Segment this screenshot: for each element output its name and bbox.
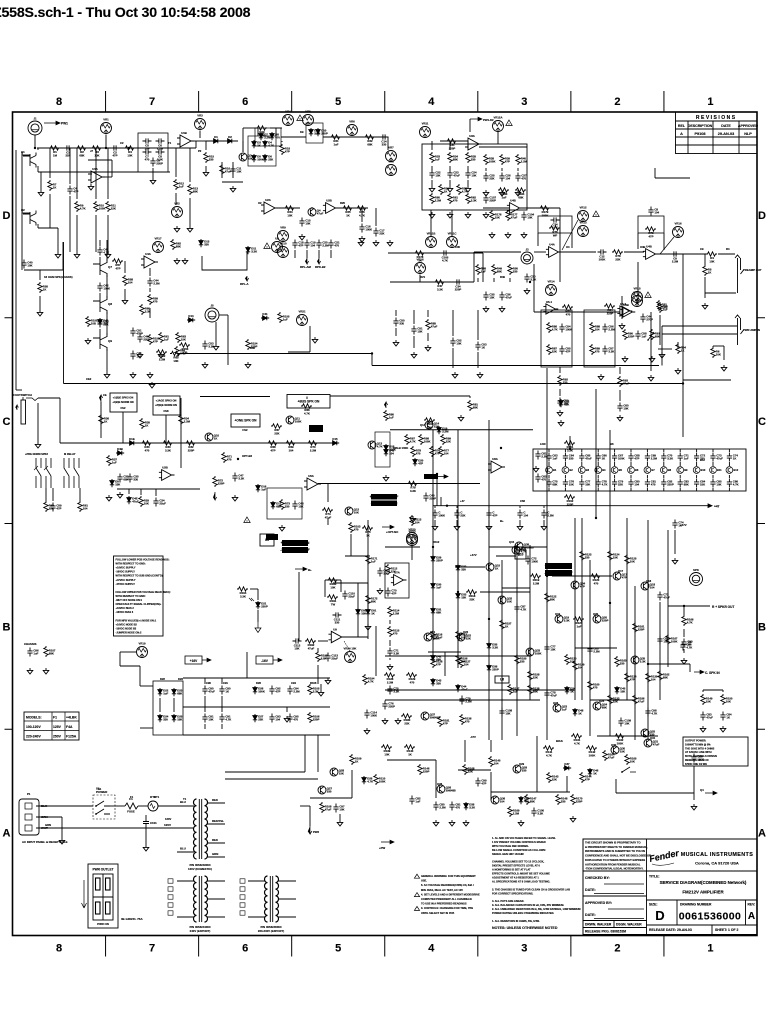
switch box B [584,310,615,367]
capacitor capacitor C26 [499,292,512,301]
capacitor capacitor C133 [117,474,129,483]
revisions table rule [738,121,740,154]
resistor resistor R131 [528,670,540,681]
wire fuse out [138,805,148,807]
svg-text:DRAWING NUMBER: DRAWING NUMBER [680,903,712,907]
transistor Q9 JFET [93,333,112,351]
svg-text:BLU: BLU [180,847,186,851]
svg-text:CE: CE [103,393,107,397]
wire color label [180,847,186,851]
svg-text:Q29: Q29 [519,762,525,766]
svg-text:100K: 100K [433,637,440,641]
op-amp op-amp U3 [261,198,278,214]
resistor resistor R26 [484,154,496,165]
resistor resistor R82 [374,774,386,785]
wire v358 [357,583,359,637]
revision entry [695,132,706,136]
net label text [555,612,561,616]
svg-text:47P: 47P [285,150,290,154]
svg-text:68K: 68K [684,483,689,487]
svg-text:U4B: U4B [510,199,516,203]
rail label [556,739,563,743]
wire rail V15 [634,586,636,740]
wire drop B [566,776,568,792]
svg-text:22K: 22K [466,637,471,641]
wire [456,520,458,524]
net label text [310,681,317,685]
resistor resistor R177 [179,414,191,425]
diode diode D26 [253,714,264,722]
connector stub [168,895,173,899]
ground [202,362,208,368]
ground [483,212,489,218]
ground [454,524,460,530]
svg-text:47P: 47P [649,234,654,238]
net label net label N5 [424,474,438,479]
svg-text:15K: 15K [620,690,625,694]
net label text [460,499,465,503]
border side tick [757,317,765,319]
svg-text:1uF: 1uF [371,560,376,564]
svg-text:VR7: VR7 [388,146,394,150]
svg-text:+16VDC SUPPLY: +16VDC SUPPLY [116,567,136,570]
net label label box LB7 [153,396,180,415]
voltage table entry [53,735,62,739]
net label text [553,701,559,705]
wire [683,649,685,653]
svg-text:-A SEL NORM ON: -A SEL NORM ON [371,501,398,505]
ground [35,442,41,448]
capacitor capacitor C78 [202,686,215,695]
ground [27,668,33,674]
svg-text:10K: 10K [624,722,629,726]
capacitor capacitor C80 [219,686,231,695]
junction [529,281,531,283]
svg-text:3. THE CHASSIS IS TUNED FOR CL: 3. THE CHASSIS IS TUNED FOR CLEAN CH & C… [492,887,570,891]
row label [3,828,11,840]
rail label [500,519,504,523]
svg-text:VR1: VR1 [103,118,109,122]
wire [728,449,730,452]
wire [107,215,109,252]
wire GRN drop [61,817,63,838]
ground [452,372,458,378]
wire link4 [590,699,635,701]
wire [339,814,341,820]
ladder stage Q20 [628,467,639,474]
border tick [570,91,572,112]
wire [449,166,451,170]
wire label [41,826,48,830]
svg-text:68K: 68K [602,706,607,710]
svg-text:68K: 68K [453,158,458,162]
svg-text:FOOTSWITCH: FOOTSWITCH [13,393,32,397]
net label label box LB1 [231,414,260,427]
wire [57,238,59,252]
resistor resistor R81 [350,754,362,765]
resistor resistor R175 [99,414,110,425]
ground [230,186,236,192]
capacitor capacitor C52 [563,479,575,488]
wire [175,193,177,205]
resistor resistor R14 [256,126,267,138]
svg-text:220P: 220P [628,335,635,339]
svg-text:10K: 10K [330,585,335,589]
resistor resistor R122 [721,694,733,705]
potentiometer potentiometer VR16 [493,116,504,132]
potentiometer potentiometer VR21 [407,530,418,546]
svg-text:15K: 15K [435,174,440,178]
svg-text:C: C [758,416,766,428]
svg-text:VR4: VR4 [285,110,291,114]
resistor resistor R50 [280,499,291,510]
svg-text:15K: 15K [569,483,574,487]
ground [143,845,149,851]
svg-text:47P: 47P [622,576,627,580]
svg-text:U1A: U1A [92,167,98,171]
capacitor capacitor C102 [700,712,713,721]
wire [597,462,599,466]
svg-text:RELEASE PKG. 0306152M: RELEASE PKG. 0306152M [585,930,626,934]
transistor Q8 JFET [93,296,112,314]
ladder stage Q19 [611,467,622,474]
border tick [384,936,386,957]
svg-text:220P: 220P [576,800,583,804]
wire rail V12 [529,545,531,700]
wire [149,268,151,276]
svg-text:15K: 15K [613,556,618,560]
capacitor capacitor C49 [546,453,558,462]
wire [702,690,704,692]
resistor resistor R146 [506,210,518,221]
junction [682,382,684,384]
svg-text:+MUTE NORM OFF: +MUTE NORM OFF [370,495,399,499]
svg-text:68K: 68K [564,403,569,407]
connector stub [240,903,245,907]
svg-text:470: 470 [153,300,158,304]
svg-text:4.7K: 4.7K [521,550,527,554]
resistor resistor R106 [625,672,637,683]
svg-text:-X REL NORM OFF: -X REL NORM OFF [544,571,572,575]
wire [106,312,108,335]
transistor transistor Q26 [526,648,541,656]
warning triangle [593,211,599,217]
wire [45,488,47,501]
junction [595,517,597,519]
ladder stage Q17 [578,467,589,474]
resistor resistor R33 [38,282,49,293]
title block rule [647,899,758,901]
svg-text:B6: B6 [610,442,614,446]
capacitor capacitor C108 [202,341,214,350]
border tick [291,91,293,112]
wire lower tie line [117,488,200,490]
svg-text:MODELS:: MODELS: [26,716,42,720]
wire [389,640,391,646]
svg-text:1uF: 1uF [436,586,441,590]
resistor resistor R156 [515,654,527,665]
resistor resistor R94 [580,550,592,561]
drive network frame [255,128,281,146]
border tick [105,936,107,957]
svg-text:PW1-D2: PW1-D2 [483,118,494,122]
svg-text:10K: 10K [339,808,344,812]
svg-text:1K: 1K [145,424,149,428]
net label label box LB4 [515,550,526,559]
wire [232,162,234,178]
resistor resistor R44 [271,424,282,436]
diode diode D37 [464,802,475,810]
capacitor capacitor C28 [97,247,109,256]
svg-text:WITH VOLTAGE REF NORMAL: WITH VOLTAGE REF NORMAL [492,844,529,848]
capacitor capacitor C38 [450,338,462,347]
wire drive line C [352,136,388,138]
svg-text:WITH RESPECT TO SUB GND (CONT': WITH RESPECT TO SUB GND (CONT'D): [116,575,164,578]
ground [521,232,527,238]
svg-text:D: D [758,210,766,222]
title block rule [583,870,647,872]
svg-text:3.3K: 3.3K [537,812,543,816]
wire [712,449,714,452]
wire fb rail A [385,689,575,691]
svg-text:1uF: 1uF [684,457,689,461]
svg-text:10K: 10K [726,700,731,704]
ladder stage Q21 [644,467,655,474]
wire drive line A [281,136,306,138]
svg-text:10K: 10K [384,752,389,756]
wire [309,326,311,352]
svg-text:1uF: 1uF [389,416,394,420]
wire stack out [168,147,196,149]
ground [691,804,697,810]
svg-text:-16V: -16V [261,659,269,663]
wire sec wire B [225,778,318,780]
svg-text:U5A: U5A [308,474,314,478]
capacitor capacitor C56 [596,479,608,488]
column label [335,96,341,108]
diode diode D52 [116,447,124,455]
output power note text [685,740,717,766]
svg-text:POWER RATING UNLESS OTHERWISE: POWER RATING UNLESS OTHERWISE INDICATED. [492,911,554,915]
svg-text:Q15: Q15 [509,540,515,544]
svg-text:J3: J3 [525,248,529,252]
fb box B [638,216,664,233]
svg-text:B1: B1 [553,468,557,472]
potentiometer potentiometer VR4 [283,110,294,126]
capacitor capacitor C22 [499,173,511,182]
resistor resistor R59 [426,319,438,330]
wire [722,690,724,692]
capacitor capacitor C135 [153,498,166,507]
ground [486,524,492,530]
svg-text:VR12A: VR12A [493,116,502,120]
wire row2 out long [318,483,480,485]
svg-text:3E GRIZZL 75A: 3E GRIZZL 75A [121,917,143,921]
svg-text:47uF: 47uF [453,174,460,178]
svg-text:104: 104 [310,244,315,248]
transistor transistor Q28 [631,656,646,664]
wire drop to 47line [436,474,438,506]
svg-text:REL: REL [678,124,686,128]
resistor resistor R17 [284,206,295,218]
rc pair [0,0,1,1]
svg-text:10K: 10K [173,359,178,363]
wire [309,806,311,826]
pa input frame [385,563,409,598]
svg-text:22K: 22K [552,778,557,782]
wire [215,322,217,344]
svg-text:2.2M: 2.2M [651,457,658,461]
svg-text:R + SPKR OUT: R + SPKR OUT [712,605,734,609]
wire [119,652,121,666]
resistor resistor R179 [162,441,173,453]
svg-text:!: ! [300,117,301,121]
resistor resistor R114 [586,746,597,758]
resistor resistor R51 [322,508,333,520]
wire [52,488,54,501]
resistor resistor R149 [401,714,412,726]
column label [149,96,155,108]
ground [499,190,505,196]
title block rule [647,924,758,926]
svg-text:2.2M: 2.2M [310,448,317,452]
junction [446,505,448,507]
wire [351,770,353,798]
svg-text:SPK: SPK [693,568,699,572]
wire [175,148,177,177]
resistor resistor R118 [418,764,430,775]
svg-text:VR13: VR13 [580,221,587,225]
svg-text:10K: 10K [27,264,32,268]
svg-text:4.7K: 4.7K [80,207,86,211]
net label text [27,792,31,796]
capacitor capacitor C61 [645,453,658,462]
wire sec wire A [225,771,305,773]
size cell [649,900,677,925]
svg-text:3.3K: 3.3K [240,594,246,598]
svg-text:4. ALL POTS ARE LINEAR.: 4. ALL POTS ARE LINEAR. [492,899,524,903]
wire [39,296,41,310]
svg-text:+16V: +16V [190,659,198,663]
net label text [250,346,255,350]
svg-text:330: 330 [163,718,168,722]
wire [340,580,342,592]
resistor resistor R67 [618,376,630,387]
wire [630,488,632,491]
op-amp op-amp U10 [507,199,523,214]
svg-text:47P: 47P [630,678,635,682]
svg-text:B4: B4 [602,468,606,472]
svg-text:U4A: U4A [145,252,151,256]
wire ce drop [100,402,102,438]
resistor resistor R98 [431,657,443,668]
svg-text:100K: 100K [379,780,386,784]
wire J3 sleeve drop [533,264,535,312]
resistor resistor R42 [170,351,181,363]
resistor resistor R165 [657,300,668,311]
wire [674,545,676,554]
svg-text:P9108: P9108 [695,132,706,136]
bridge frame [153,681,183,735]
svg-text:WF: WF [553,233,558,237]
ground [702,303,708,309]
clip diode box [306,123,323,143]
ground [122,298,128,304]
net arrow 47 [702,504,720,509]
ground [515,190,521,196]
svg-text:15K: 15K [417,330,422,334]
resistor resistor R159 [612,250,623,261]
wire [581,449,583,452]
svg-text:MUSICAL INSTRUMENTS: MUSICAL INSTRUMENTS [681,852,754,858]
diode diode D43 [615,686,626,694]
svg-text:-TION CONFIDENTIAL/LEGAL NOTEW: -TION CONFIDENTIAL/LEGAL NOTEWORTHY. [585,867,644,871]
wire [149,288,151,292]
wire [488,506,490,508]
svg-text:220P: 220P [423,770,430,774]
bias stem [344,641,350,651]
resistor resistor R115 [547,772,559,783]
potentiometer potentiometer VR9 [278,226,289,242]
wire q16 link [496,555,516,557]
svg-text:B10: B10 [701,468,706,472]
svg-text:47uF: 47uF [511,216,518,220]
svg-text:330: 330 [382,143,387,147]
svg-text:330: 330 [285,505,290,509]
svg-text:68K: 68K [436,658,441,662]
wire [37,166,39,172]
ground [463,820,469,826]
junction [237,458,239,460]
wire 0V rail [183,706,330,708]
capacitor capacitor C21 [483,173,495,182]
wire [564,475,566,478]
wire [49,148,51,178]
capacitor capacitor C116 [521,212,534,221]
wire [427,333,429,341]
wire tie to rail [288,351,310,353]
warning triangle [414,893,419,897]
wire [106,275,108,298]
wire color label [212,852,218,856]
switch group label B [64,452,76,456]
wire [427,310,429,317]
svg-text:B: B [3,622,11,634]
svg-text:68K: 68K [655,335,660,339]
svg-text:MIN. BIAS, REAL AC TEST, AC 10: MIN. BIAS, REAL AC TEST, AC 10V [421,888,463,892]
diode diode D19 [413,458,424,466]
net label text [130,795,134,799]
diode diode D7 [259,132,271,140]
capacitor capacitor C79 [202,714,214,723]
net label text [700,247,704,251]
wire [221,724,223,729]
svg-text:D9: D9 [300,130,304,134]
svg-text:!: ! [596,213,597,217]
wire pa top link [489,546,547,548]
ground [393,340,399,346]
svg-text:3. ALL BALANCED CAPACITORS IN: 3. ALL BALANCED CAPACITORS IN uF, 10%, 3… [492,903,564,907]
ground [74,252,80,258]
resistor resistor R39 [171,239,182,250]
capacitor capacitor C43 [602,346,614,355]
wire [630,449,632,452]
svg-text:RPL-A: RPL-A [240,282,249,286]
wire [294,250,296,258]
wire [501,168,503,171]
svg-text:-47VDC SUPPLY: -47VDC SUPPLY [116,583,136,586]
svg-text:47uF: 47uF [638,700,645,704]
